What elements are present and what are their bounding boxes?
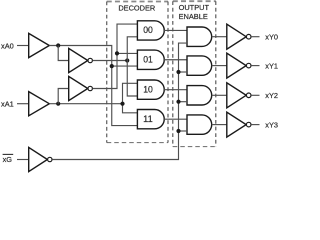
wire to xY3 (251, 124, 259, 126)
wire xA0 lead (17, 45, 28, 47)
wire enable gate Y0 out (212, 36, 227, 38)
wire enable gate Y3 out (212, 124, 227, 126)
svg-text:xY0: xY0 (265, 33, 278, 42)
and-gate 01 (137, 50, 164, 69)
output inverter Y2 (227, 83, 251, 108)
label xG (active low) (3, 154, 14, 163)
enable and-gate Y2 (187, 86, 212, 105)
output enable dashed box (173, 1, 216, 146)
and-gate 10 (137, 80, 164, 99)
node A1 buffer output (56, 102, 60, 106)
node nA1 bus / gate01 input (115, 51, 119, 55)
inverter A1 (69, 76, 93, 100)
wire A0 true (buffer out, right then down bus, to gate 11 lower input) (49, 46, 137, 126)
wire A0 bus branch to gate 01 lower input (112, 65, 138, 67)
wire nA0 bus (gate00 lower to gate10 lower) (127, 37, 137, 96)
wire to xY2 (251, 94, 259, 96)
node enable Y1 (176, 70, 180, 74)
svg-text:xA0: xA0 (1, 41, 14, 50)
inverter G (29, 147, 52, 171)
enable and-gate Y1 (187, 56, 212, 75)
buffer A1 (29, 92, 50, 116)
wire to xY0 (251, 36, 259, 38)
wire to xY1 (251, 65, 259, 67)
wire xA1 lead (17, 103, 28, 105)
svg-text:xA1: xA1 (1, 100, 14, 109)
wire riser to inverter A1 (58, 89, 68, 104)
wire A1 stub (gate10 upper to gate11 upper) (123, 83, 138, 113)
svg-text:11: 11 (143, 114, 153, 124)
wire enable bus (inverter G out, right, up, to enable gate Y0 lower input) (52, 43, 187, 159)
wire gate01 out to enable gate (164, 59, 187, 61)
node A0 bus / gate01 input (110, 64, 114, 68)
enable and-gate Y0 (187, 27, 212, 46)
svg-text:ENABLE: ENABLE (179, 12, 208, 21)
label OUTPUT ENABLE (179, 3, 210, 21)
buffer A0 (29, 33, 50, 57)
wire xG lead (17, 159, 28, 161)
svg-text:DECODER: DECODER (118, 3, 155, 12)
wire enable branch Y1 (179, 71, 188, 73)
wire riser to inverter A0 (58, 46, 68, 61)
output inverter Y3 (227, 112, 251, 137)
svg-text:OUTPUT: OUTPUT (179, 3, 210, 12)
wire A1 true (buffer out to junction) (49, 103, 122, 105)
svg-text:xY1: xY1 (265, 61, 278, 70)
decoder dashed box (107, 2, 168, 143)
svg-text:xY2: xY2 (265, 91, 278, 100)
svg-text:00: 00 (143, 25, 153, 35)
wire gate10 out to enable gate (164, 89, 187, 91)
wire enable gate Y1 out (212, 65, 227, 67)
output inverter Y1 (227, 53, 251, 78)
svg-text:10: 10 (143, 84, 153, 94)
svg-text:xG: xG (3, 155, 13, 164)
svg-text:01: 01 (143, 54, 153, 64)
wire gate11 out to enable gate (164, 118, 187, 120)
and-gate 11 (137, 110, 164, 129)
node enable Y2 (176, 100, 180, 104)
node enable Y3 (176, 129, 180, 133)
node nA0 junction (125, 58, 129, 62)
node A0 buffer output (56, 43, 60, 47)
wire nA1 branch to gate01 upper input (117, 52, 137, 54)
wire enable branch Y2 (179, 101, 188, 103)
and-gate 00 (137, 21, 164, 40)
svg-text:xY3: xY3 (265, 120, 278, 129)
output inverter Y0 (227, 24, 251, 49)
wire nA1 (inverter out, up bus, to gate00 upper input) (93, 24, 138, 88)
wire enable branch Y3 (179, 130, 188, 132)
wire nA0 (inverter out to bus) (93, 60, 128, 62)
inverter A0 (69, 48, 93, 72)
enable and-gate Y3 (187, 115, 212, 134)
wire gate00 out to enable gate (164, 29, 187, 31)
node A1 junction (120, 102, 124, 106)
wire enable gate Y2 out (212, 94, 227, 96)
